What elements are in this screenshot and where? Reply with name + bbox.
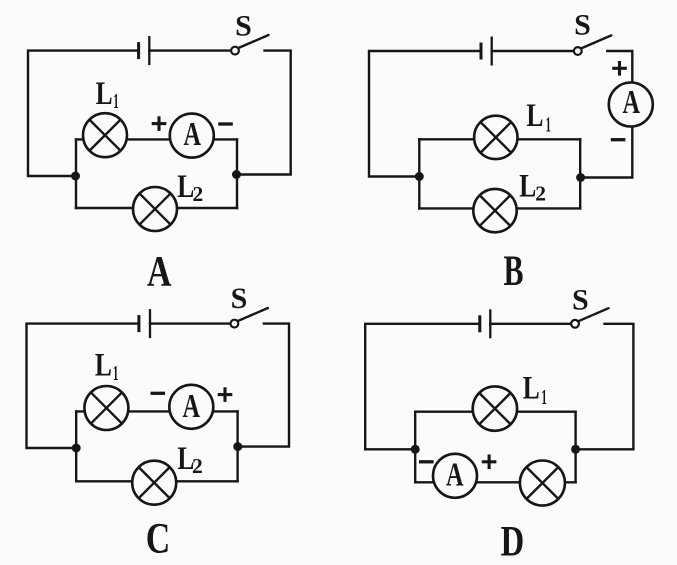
circuit B: lamp L2 <box>473 189 516 232</box>
circuit D: wire, bottom parallel branch through ammeter and lamp <box>415 481 575 483</box>
circuit A: wire, top parallel branch through L1 and ammeter <box>76 138 237 140</box>
circuit B: label L1 <box>526 98 551 136</box>
circuit D: ammeter + terminal label <box>482 455 497 470</box>
circuit C: switch S <box>231 308 268 328</box>
circuit C: lamp L1 <box>84 386 128 430</box>
svg-text:1: 1 <box>541 385 547 409</box>
circuit B: wire, left side of parallel loop <box>418 139 420 208</box>
circuit A: wire, right side of parallel loop <box>236 139 238 208</box>
circuit A: wire from battery left plate around left side to left junction <box>28 51 139 176</box>
svg-text:L: L <box>526 98 543 134</box>
circuit A: wire, left side of parallel loop <box>75 139 77 208</box>
circuit A: wire, bottom parallel branch through L2 <box>76 207 237 209</box>
svg-text:S: S <box>235 10 252 43</box>
circuit B: ammeter - terminal label <box>611 138 626 141</box>
circuit B: label L2 <box>519 168 546 205</box>
circuit C: ammeter + terminal label <box>218 387 233 402</box>
circuit C: ammeter - terminal label <box>151 392 166 395</box>
circuit D: wire, top parallel branch through L1 <box>415 411 575 413</box>
svg-text:B: B <box>504 248 524 295</box>
circuit A: label L1 <box>96 76 119 113</box>
circuit A: wire from switch down right side to right junction <box>237 51 291 175</box>
circuit D: ammeter - terminal label <box>419 460 434 463</box>
circuit D: lamp L1 <box>473 386 517 430</box>
circuit A: battery cell <box>139 36 150 65</box>
circuit B: switch S <box>574 35 611 54</box>
svg-text:A: A <box>183 388 201 425</box>
circuit C: ammeter <box>169 385 213 429</box>
circuit D: wire, right side of parallel loop <box>574 412 576 483</box>
circuit C: wire from battery right plate to switch <box>150 322 231 324</box>
circuit B: ammeter <box>609 83 653 127</box>
circuit B: wire from battery left plate around left side to left junction <box>369 51 481 177</box>
svg-text:S: S <box>231 282 248 315</box>
circuit C: wire from switch down right side to right junction <box>238 324 289 447</box>
circuit C: battery cell <box>139 309 150 338</box>
circuit C: right junction node <box>233 442 242 451</box>
circuit D: wire from switch down right side to right junction <box>576 324 634 450</box>
circuit B: wire, right side of parallel loop <box>579 139 581 208</box>
svg-text:S: S <box>574 8 591 41</box>
circuit D: left junction node <box>411 445 420 454</box>
svg-text:1: 1 <box>113 89 119 113</box>
svg-text:L: L <box>523 371 540 407</box>
circuit B: battery cell <box>481 37 492 66</box>
circuit C: label L2 <box>177 441 202 478</box>
circuit B: wire from battery right plate to switch <box>492 50 574 52</box>
circuit C: wire, top parallel branch through L1 and ammeter <box>76 410 237 412</box>
svg-text:2: 2 <box>193 182 204 206</box>
svg-text:S: S <box>572 284 589 317</box>
circuit A: ammeter <box>170 114 214 158</box>
circuit D: wire from battery left plate around left side to left junction <box>365 324 480 450</box>
svg-text:2: 2 <box>535 181 546 205</box>
svg-text:1: 1 <box>546 112 552 136</box>
circuit A: lamp L1 <box>83 113 127 157</box>
circuit B: wire, top parallel branch through L1 <box>419 138 580 140</box>
circuit A: label L2 <box>177 169 203 206</box>
circuit D: wire, left side of parallel loop <box>414 412 416 483</box>
circuit D: lamp L2 <box>520 461 565 506</box>
circuit C: wire, right side of parallel loop <box>236 411 238 481</box>
circuit A: wire from battery right plate to switch <box>149 49 231 51</box>
circuit D: switch S <box>571 308 608 327</box>
circuit C: lamp L2 <box>132 461 176 505</box>
circuit B: lamp L1 <box>474 116 517 159</box>
circuit A: ammeter - terminal label <box>218 122 233 125</box>
circuit C: wire, bottom parallel branch through L2 <box>76 480 237 482</box>
circuit D: wire from battery right plate to switch <box>490 323 571 325</box>
circuit A: left junction node <box>71 172 80 181</box>
circuit A: right junction node <box>232 170 241 179</box>
circuit C: label L1 <box>95 348 119 385</box>
svg-text:A: A <box>446 457 464 494</box>
circuit B: left junction node <box>415 172 424 181</box>
svg-text:D: D <box>501 519 525 565</box>
circuit B: wire, bottom parallel branch through L2 <box>419 207 580 209</box>
circuit A: ammeter + terminal label <box>152 116 167 131</box>
svg-text:1: 1 <box>113 361 119 385</box>
circuit B: wire from switch down through ammeter to right junction <box>581 51 633 178</box>
circuit B: right junction node <box>576 173 585 182</box>
svg-text:A: A <box>147 248 171 295</box>
svg-text:A: A <box>183 116 201 153</box>
circuit D: ammeter <box>433 454 477 498</box>
svg-text:C: C <box>146 515 171 562</box>
circuit C: left junction node <box>72 444 81 453</box>
circuit C: wire from battery left plate around left side to left junction <box>27 324 139 448</box>
circuit A: lamp L2 <box>133 187 177 231</box>
svg-text:2: 2 <box>192 454 203 478</box>
circuit D: right junction node <box>571 445 580 454</box>
circuit B: ammeter + terminal label <box>612 61 627 76</box>
svg-text:A: A <box>622 84 640 121</box>
circuit D: battery cell <box>480 309 491 338</box>
svg-text:L: L <box>96 76 113 112</box>
circuit A: switch S <box>231 35 268 54</box>
circuit D: label L1 <box>523 371 547 409</box>
svg-text:L: L <box>95 348 112 384</box>
svg-text:L: L <box>519 168 536 204</box>
circuit C: wire, left side of parallel loop <box>75 411 77 481</box>
